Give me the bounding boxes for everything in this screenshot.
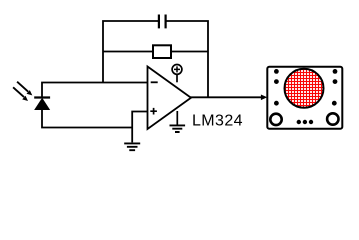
svg-text:LM324: LM324 (192, 113, 243, 130)
